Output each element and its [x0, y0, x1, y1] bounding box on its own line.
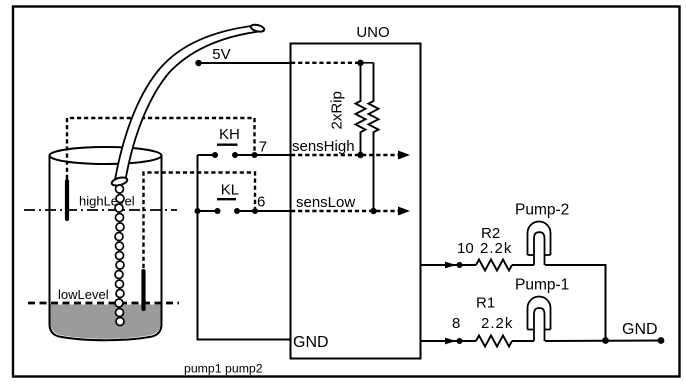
svg-text:Pump-2: Pump-2 — [515, 202, 569, 219]
tube/hose — [111, 24, 265, 188]
svg-text:7: 7 — [259, 138, 267, 155]
svg-text:GND: GND — [293, 334, 329, 351]
svg-text:2xRip: 2xRip — [329, 91, 346, 129]
bubbles — [115, 185, 124, 326]
tank top ellipse — [50, 147, 162, 164]
node pin8 dot — [457, 338, 463, 344]
water (gray fill in tank) — [51, 305, 161, 339]
node KL-GND junction — [195, 208, 201, 214]
svg-text:R1: R1 — [476, 295, 495, 312]
sensor wire highLevel (dashed) — [67, 118, 255, 179]
svg-text:2.2k: 2.2k — [481, 315, 513, 332]
wire 5V to UNO — [199, 62, 291, 64]
svg-text:KH: KH — [219, 126, 240, 143]
resistor R2 — [476, 260, 512, 271]
pump Pump-2 symbol — [528, 222, 551, 266]
node 5V dot — [195, 60, 201, 66]
node GND junction — [602, 337, 609, 344]
wire switches to GND (left vertical + bottom horizontal) — [198, 155, 291, 340]
resistor Rip1 (left pull-up) — [356, 63, 366, 155]
wire R2 to pump2 — [512, 264, 534, 266]
arrow sensLow — [398, 207, 410, 216]
switch KL — [198, 199, 291, 214]
svg-text:10: 10 — [457, 240, 474, 257]
tube top opening cap — [250, 24, 265, 33]
wire R1 to pump1 — [512, 340, 534, 342]
node sensHigh-resistor junction — [357, 152, 363, 158]
svg-text:sensLow: sensLow — [296, 194, 355, 211]
arrow sensHigh — [398, 151, 410, 160]
wire pump2 to GND rail — [545, 265, 606, 341]
node GND terminal — [658, 337, 665, 344]
UNO box — [291, 44, 421, 359]
wire resistor top connector — [361, 62, 374, 64]
wire pin8 row — [421, 340, 476, 342]
electrode lowLevel sensor — [141, 271, 145, 309]
svg-text:highLevel: highLevel — [79, 194, 135, 209]
svg-text:lowLevel: lowLevel — [58, 287, 109, 302]
resistor Rip2 (right pull-up) — [369, 63, 379, 211]
wire pin10 row — [421, 264, 476, 266]
node pin10 dot — [457, 262, 463, 268]
node pin7 junction — [252, 152, 258, 158]
svg-text:sensHigh: sensHigh — [292, 138, 355, 155]
wire 5V inside UNO (dashed) — [291, 62, 361, 64]
lowLevel water line (thick dashed) — [28, 302, 179, 305]
node 5V-resistors junction — [357, 60, 363, 66]
svg-text:6: 6 — [257, 194, 265, 211]
highLevel water line (dash-dot) — [24, 209, 177, 211]
node sensLow-resistor junction — [370, 208, 376, 214]
resistor R1 — [476, 336, 512, 347]
electrode highLevel sensor — [65, 181, 69, 219]
sensor wire lowLevel (dashed) — [144, 173, 256, 269]
arrow pin10 — [445, 262, 456, 269]
node pin6 junction — [252, 208, 258, 214]
wire sensHigh inside UNO (dashed with arrow) — [291, 154, 399, 156]
switch KH — [198, 145, 291, 158]
arrow pin8 — [445, 338, 456, 345]
svg-text:5V: 5V — [212, 46, 230, 63]
svg-text:GND: GND — [622, 321, 658, 338]
pump Pump-1 symbol — [528, 297, 551, 342]
svg-text:pump1 pump2: pump1 pump2 — [184, 361, 263, 375]
wire pump1 to GND node — [545, 340, 661, 343]
wire sensLow inside UNO (dashed with arrow) — [291, 210, 399, 212]
svg-text:UNO: UNO — [356, 24, 389, 41]
svg-text:KL: KL — [221, 181, 239, 198]
tank body — [50, 156, 162, 341]
svg-text:Pump-1: Pump-1 — [515, 277, 569, 294]
tube bottom end cap — [111, 176, 128, 187]
svg-text:2.2k: 2.2k — [480, 240, 512, 257]
svg-text:8: 8 — [452, 315, 460, 332]
